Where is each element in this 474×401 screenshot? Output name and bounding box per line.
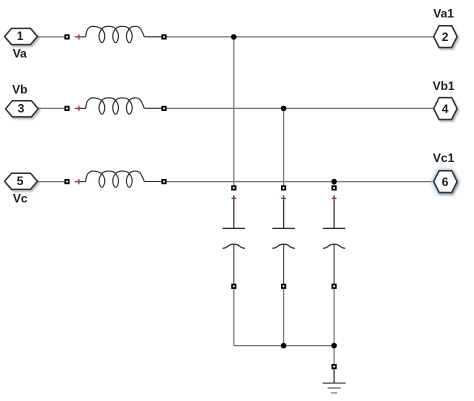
port 4 (Vb1) xyxy=(433,79,458,120)
wire phase Vc right segment xyxy=(167,181,434,183)
surge arrester internal line (top) xyxy=(233,195,235,228)
inductor L1 xyxy=(64,26,166,42)
wire branch B vertical xyxy=(283,108,285,185)
surge arrester internal line (top) xyxy=(283,195,285,228)
port 3 (Vb) xyxy=(6,82,39,117)
surge arrester arrow xyxy=(323,244,345,248)
surge arrester plate xyxy=(223,227,246,229)
wire arrester B to bus xyxy=(283,289,285,346)
svg-text:Vb: Vb xyxy=(12,82,27,96)
junction node bus-B xyxy=(281,343,287,349)
wire bus to ground xyxy=(333,346,335,364)
surge arrester B xyxy=(272,185,295,289)
ground block xyxy=(323,364,346,393)
svg-text:3: 3 xyxy=(18,102,25,116)
surge arrester arrow xyxy=(223,244,245,248)
junction node C top xyxy=(331,179,337,185)
surge arrester plate xyxy=(323,227,346,229)
junction node B top xyxy=(281,106,287,112)
port 6 (Vc1) xyxy=(433,151,457,193)
svg-text:2: 2 xyxy=(442,30,449,44)
surge arrester internal line (top) xyxy=(333,195,335,228)
surge arrester arrow xyxy=(272,244,294,248)
wire phase Va right segment xyxy=(167,36,434,38)
svg-text:5: 5 xyxy=(17,174,24,188)
svg-text:Vb1: Vb1 xyxy=(433,79,455,93)
wire branch A vertical xyxy=(233,37,235,185)
port 5 (Vc) xyxy=(5,173,38,205)
surge arrester C xyxy=(323,185,346,289)
wire arrester A to bus xyxy=(233,289,235,346)
svg-text:1: 1 xyxy=(17,29,24,43)
inductor L3 xyxy=(64,171,166,187)
surge arrester internal line (bottom) xyxy=(333,245,335,284)
svg-text:Vc1: Vc1 xyxy=(433,151,455,165)
surge arrester internal line (bottom) xyxy=(283,245,285,284)
port 1 (Va) xyxy=(5,28,38,60)
svg-text:Va1: Va1 xyxy=(433,7,454,21)
junction node bus-ground xyxy=(331,343,337,349)
surge arrester A xyxy=(223,185,246,289)
junction node A top xyxy=(231,34,237,40)
wire phase Vb left segment xyxy=(37,107,64,109)
wire phase Vc left segment xyxy=(37,181,64,183)
surge arrester internal line (bottom) xyxy=(233,245,235,284)
wire bottom bus xyxy=(234,345,334,347)
wire branch C vertical xyxy=(333,182,335,186)
svg-text:4: 4 xyxy=(442,102,449,116)
surge arrester plate xyxy=(272,227,295,229)
inductor L2 xyxy=(64,98,166,114)
svg-text:Va: Va xyxy=(13,47,27,61)
svg-text:Vc: Vc xyxy=(13,191,28,205)
wire arrester C to bus xyxy=(333,289,335,346)
port 2 (Va1) xyxy=(433,7,457,48)
svg-text:6: 6 xyxy=(442,175,449,189)
wire phase Va left segment xyxy=(37,36,64,38)
wire phase Vb right segment xyxy=(167,107,434,109)
